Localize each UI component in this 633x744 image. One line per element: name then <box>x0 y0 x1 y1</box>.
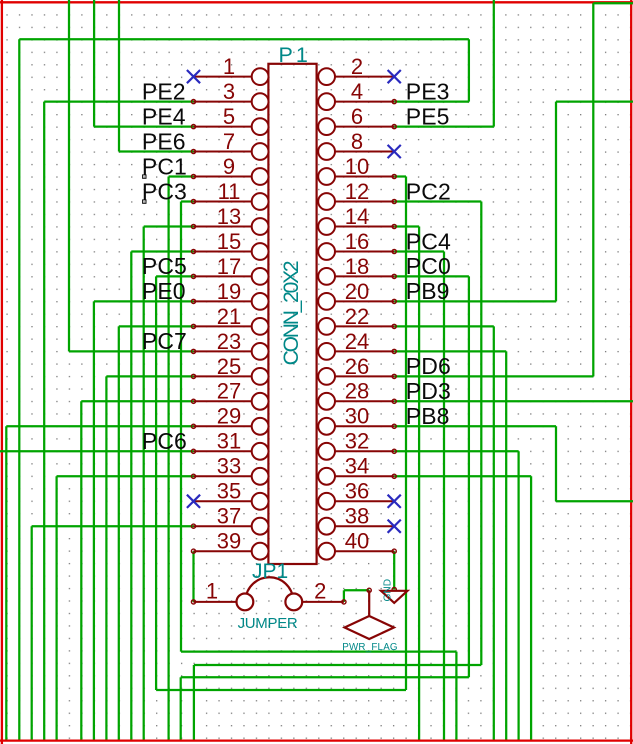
svg-text:15: 15 <box>217 229 241 254</box>
svg-text:PD6: PD6 <box>406 353 451 379</box>
wire pin22 vertical to bottom <box>493 326 495 741</box>
svg-text:2: 2 <box>351 54 363 79</box>
no-connect X <box>388 70 401 83</box>
pin 19 (left row 9) <box>194 293 269 310</box>
wire pin4 net left vertical to bottom <box>18 39 20 741</box>
svg-text:37: 37 <box>217 504 241 529</box>
wire pin14 vertical to bottom <box>418 227 420 742</box>
wire pin11 net bottom horizontal <box>181 650 456 652</box>
wire pin15 horizontal <box>131 250 193 252</box>
svg-text:CONN_20X2: CONN_20X2 <box>280 261 303 365</box>
no-connect X <box>388 520 401 533</box>
svg-text:PC7: PC7 <box>142 328 187 354</box>
wire pin24 horizontal <box>394 350 506 352</box>
wire pin5 net vertical from top <box>93 0 95 127</box>
svg-text:28: 28 <box>345 379 369 404</box>
pin 6 (right row 2) <box>318 118 394 135</box>
wire pin14 horizontal <box>394 225 419 227</box>
no-connect X <box>187 70 200 83</box>
wire pin34 vertical to bottom <box>530 476 532 741</box>
jumper pin 1 line <box>194 601 237 603</box>
svg-text:22: 22 <box>345 304 369 329</box>
svg-text:30: 30 <box>345 404 369 429</box>
svg-text:6: 6 <box>351 104 363 129</box>
svg-text:9: 9 <box>223 154 235 179</box>
wire pin37 vertical to bottom <box>31 526 33 741</box>
svg-text:PD3: PD3 <box>406 378 451 404</box>
pin 32 (right row 15) <box>318 443 394 460</box>
pin 37 (left row 18) <box>194 518 269 535</box>
svg-text:18: 18 <box>345 254 369 279</box>
wire pin26 PD6 horizontal <box>394 375 593 377</box>
svg-text:39: 39 <box>217 529 241 554</box>
svg-text:7: 7 <box>223 129 235 154</box>
wire pin18 vertical <box>468 276 470 677</box>
svg-text:24: 24 <box>345 329 369 354</box>
wire pin39 to jumper pin1 <box>192 551 194 602</box>
svg-text:PC4: PC4 <box>406 228 451 254</box>
pin 38 (right row 18) <box>318 518 394 535</box>
svg-text:38: 38 <box>345 504 369 529</box>
wire pin11 net vertical to bottom <box>455 652 457 741</box>
svg-text:25: 25 <box>217 354 241 379</box>
pin 29 (left row 14) <box>194 418 269 435</box>
wire pin33 vertical to bottom <box>55 476 57 741</box>
wire pin31 PC6 horizontal to left edge <box>0 450 194 452</box>
wire pin26 vertical <box>592 3 594 376</box>
pin 10 (right row 4) <box>318 168 394 185</box>
wire pin11 horizontal <box>181 200 194 202</box>
wire pin21 vertical to bottom <box>118 326 120 741</box>
svg-text:12: 12 <box>345 179 369 204</box>
pin 21 (left row 10) <box>194 318 269 335</box>
pin end connection rings <box>191 100 396 605</box>
jumper JP1 pad 1 <box>237 594 254 611</box>
wire pin6 net vertical from top <box>493 0 495 127</box>
svg-text:11: 11 <box>218 179 241 204</box>
wire pin30 PB8 horizontal <box>394 425 556 427</box>
wire pin20 vertical <box>555 102 557 302</box>
wire pin15 vertical to bottom <box>130 252 132 742</box>
pin 20 (right row 9) <box>318 293 394 310</box>
PWR_FLAG diamond <box>345 616 394 639</box>
wire pin18 PC0 horizontal <box>394 275 469 277</box>
pin 17 (left row 8) <box>194 268 269 285</box>
pin 13 (left row 6) <box>194 218 269 235</box>
svg-text:PE5: PE5 <box>406 103 450 129</box>
wire pin27 vertical to bottom <box>80 401 82 741</box>
pin 18 (right row 8) <box>318 268 394 285</box>
svg-text:1: 1 <box>206 579 218 604</box>
wire pin12 vertical <box>480 202 482 666</box>
pin 15 (left row 7) <box>194 243 269 260</box>
pin 24 (right row 11) <box>318 343 394 360</box>
dangling anchor square of label PC3 <box>143 200 146 203</box>
wire pin7 net vertical from top <box>118 0 120 152</box>
svg-text:PC5: PC5 <box>142 253 187 279</box>
svg-text:21: 21 <box>217 304 241 329</box>
svg-text:PE2: PE2 <box>142 78 186 104</box>
pin 40 (right row 19) <box>318 543 394 560</box>
wire pin28 PD3 horizontal to right edge <box>394 400 633 402</box>
wire pin32 horizontal <box>394 450 518 452</box>
wire pin16 vertical to bottom <box>443 252 445 742</box>
wire pin17 PC5 horizontal <box>156 275 193 277</box>
wire pin13 horizontal <box>144 225 194 227</box>
svg-text:8: 8 <box>351 129 363 154</box>
pin 9 (left row 4) <box>194 168 269 185</box>
wire pin24 vertical to bottom <box>505 351 507 741</box>
svg-text:16: 16 <box>345 229 369 254</box>
pin 1 (left row 0) <box>194 68 269 85</box>
pin 7 (left row 3) <box>194 143 269 160</box>
svg-text:19: 19 <box>217 279 241 304</box>
pin 39 (left row 19) <box>194 543 269 560</box>
wire pin20 net to right edge <box>556 100 633 102</box>
pin 25 (left row 12) <box>194 368 269 385</box>
dangling anchor square of label PC1 <box>143 175 146 178</box>
wire pin17-pin10 net bottom horizontal <box>156 689 406 691</box>
pin 4 (right row 1) <box>318 93 394 110</box>
wire pin7 PE6 horizontal <box>119 150 194 152</box>
pin 23 (left row 11) <box>194 343 269 360</box>
wire pin16 PC4 horizontal <box>394 250 444 252</box>
connector P1 CONN_20X2 body <box>268 64 316 564</box>
svg-text:4: 4 <box>351 79 363 104</box>
wire pin13 vertical to bottom <box>143 227 145 742</box>
wire pin5 PE4 horizontal <box>94 125 193 127</box>
pin 30 (right row 14) <box>318 418 394 435</box>
svg-text:P1: P1 <box>279 43 311 67</box>
svg-text:PC0: PC0 <box>406 253 451 279</box>
wire pin27 horizontal <box>81 400 193 402</box>
svg-text:1: 1 <box>223 54 235 79</box>
svg-text:20: 20 <box>345 279 369 304</box>
wire pin12 net bottom horizontal <box>194 664 481 666</box>
wire pin29 vertical to bottom <box>5 426 7 741</box>
svg-text:5: 5 <box>223 104 235 129</box>
svg-text:PC1: PC1 <box>142 153 187 179</box>
pin 2 (right row 0) <box>318 68 394 85</box>
wire pin40 to GND <box>393 551 395 589</box>
svg-text:PB8: PB8 <box>406 403 450 429</box>
sheet border bottom edge <box>0 739 633 741</box>
svg-text:PWR_FLAG: PWR_FLAG <box>342 642 398 653</box>
pin 34 (right row 16) <box>318 468 394 485</box>
svg-text:PB9: PB9 <box>406 278 450 304</box>
wire jumper pin2 vertical <box>343 590 345 602</box>
pin 35 (left row 17) <box>194 493 269 510</box>
wire pin32 vertical to bottom <box>517 451 519 741</box>
pin 28 (right row 13) <box>318 393 394 410</box>
svg-text:14: 14 <box>345 204 369 229</box>
svg-text:23: 23 <box>217 329 241 354</box>
wire pin11 vertical <box>180 202 182 652</box>
wire pin25 horizontal <box>106 375 193 377</box>
svg-text:29: 29 <box>217 404 241 429</box>
pin 27 (left row 13) <box>194 393 269 410</box>
jumper pin 2 line <box>302 601 344 603</box>
pin 8 (right row 3) <box>318 143 394 160</box>
svg-text:PE6: PE6 <box>142 128 186 154</box>
wire pin12 net vertical to bottom <box>193 665 195 741</box>
wire pin26 net to top right edge <box>593 2 633 4</box>
wire pin19 PE0 horizontal <box>94 300 194 302</box>
svg-text:2: 2 <box>314 579 326 604</box>
wire jumper pin2 to PWR_FLAG <box>344 589 369 591</box>
wire pin12 PC2 horizontal <box>394 200 481 202</box>
pin 36 (right row 17) <box>318 493 394 510</box>
wire pin9 horizontal <box>169 175 194 177</box>
svg-text:PE3: PE3 <box>406 78 450 104</box>
svg-text:33: 33 <box>217 454 241 479</box>
no-connect X <box>388 495 401 508</box>
pin 33 (left row 16) <box>194 468 269 485</box>
no-connect X <box>388 145 401 158</box>
pin 31 (left row 15) <box>194 443 269 460</box>
PWR_FLAG pin line <box>368 590 370 616</box>
wire pin4 net top horizontal <box>19 38 469 40</box>
svg-text:13: 13 <box>217 204 241 229</box>
svg-text:31: 31 <box>217 429 241 454</box>
svg-text:34: 34 <box>345 454 369 479</box>
svg-text:27: 27 <box>217 379 241 404</box>
wire pin33 horizontal <box>57 475 194 477</box>
wire pin29 horizontal <box>6 425 193 427</box>
svg-text:36: 36 <box>345 479 369 504</box>
wire pin18 net vertical to bottom <box>180 677 182 741</box>
pin 16 (right row 7) <box>318 243 394 260</box>
wire pin30 vertical <box>555 426 557 501</box>
wire pin34 horizontal <box>394 475 531 477</box>
wire pin23 net vertical from top <box>68 0 70 351</box>
wire pin17 vertical <box>155 276 157 690</box>
wire pin4 net right vertical <box>468 39 470 101</box>
GND symbol triangle <box>381 591 407 603</box>
pin 3 (left row 1) <box>194 93 269 110</box>
no-connect X <box>187 495 200 508</box>
svg-text:26: 26 <box>345 354 369 379</box>
wire pin4 PE3 horizontal <box>394 100 469 102</box>
wire pin30 net to right edge <box>556 500 633 502</box>
jumper JP1 pad 2 <box>285 594 302 611</box>
pin 11 (left row 5) <box>194 193 269 210</box>
svg-text:17: 17 <box>217 254 241 279</box>
pin 26 (right row 12) <box>318 368 394 385</box>
svg-text:PE4: PE4 <box>142 103 186 129</box>
jumper JP1 arc <box>246 577 294 599</box>
wire pin37 horizontal <box>32 525 194 527</box>
svg-text:JP1: JP1 <box>252 560 288 583</box>
svg-text:JUMPER: JUMPER <box>238 615 298 632</box>
svg-text:32: 32 <box>345 429 369 454</box>
wire pin20 PB9 horizontal <box>394 300 556 302</box>
pin 14 (right row 6) <box>318 218 394 235</box>
wire pin9 vertical to bottom <box>167 177 169 742</box>
wire pin21 horizontal <box>119 325 194 327</box>
pin 12 (right row 5) <box>318 193 394 210</box>
svg-text:PC2: PC2 <box>406 178 451 204</box>
wire pin19 vertical to bottom <box>93 301 95 741</box>
svg-text:35: 35 <box>217 479 241 504</box>
svg-text:3: 3 <box>223 79 235 104</box>
wire pin25 vertical to bottom <box>105 376 107 741</box>
wire pin10 horizontal <box>394 175 406 177</box>
wire pin6 PE5 horizontal <box>394 125 494 127</box>
wire pin18 net bottom horizontal <box>181 676 469 678</box>
svg-text:40: 40 <box>345 529 369 554</box>
svg-text:GND: GND <box>383 579 394 602</box>
wire pin3 net vertical to bottom <box>43 102 45 741</box>
pin 5 (left row 2) <box>194 118 269 135</box>
wire pin10 net vertical <box>405 177 407 691</box>
wire pin23 PC7 horizontal <box>69 350 194 352</box>
pin 22 (right row 10) <box>318 318 394 335</box>
svg-text:PC3: PC3 <box>142 178 187 204</box>
wire pin22 horizontal <box>394 325 494 327</box>
wire pin3 PE2 horizontal <box>44 100 193 102</box>
svg-text:PE0: PE0 <box>142 278 186 304</box>
svg-text:PC6: PC6 <box>142 428 187 454</box>
svg-text:10: 10 <box>345 154 369 179</box>
